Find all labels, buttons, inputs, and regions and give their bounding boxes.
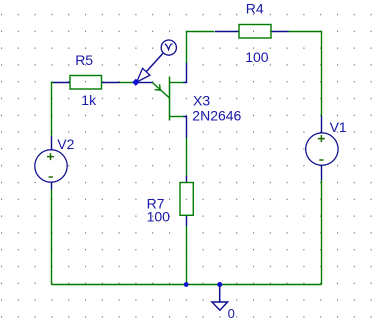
resistor R4: [215, 25, 289, 39]
B1 lead: [170, 116, 185, 118]
wire R4 right to V1 top: [289, 32, 322, 116]
svg-text:2N2646: 2N2646: [192, 108, 241, 124]
emitter arrowhead: [155, 84, 161, 90]
wire bottom rail: [52, 284, 322, 286]
resistor R7: [180, 176, 193, 226]
B2 lead: [170, 82, 185, 84]
wire top-left net: R5 left to V2 top: [52, 83, 55, 137]
resistor R5: [54, 76, 120, 90]
svg-text:V2: V2: [57, 136, 74, 152]
svg-text:100: 100: [245, 49, 269, 65]
wire B1 to R7 top: [186, 138, 188, 177]
ground 0: [212, 285, 228, 310]
svg-text:X3: X3: [193, 93, 210, 109]
wire R5 right to node: [120, 82, 135, 84]
svg-text:1k: 1k: [81, 92, 97, 108]
svg-text:R4: R4: [246, 1, 264, 17]
junction ground stub: [217, 282, 222, 287]
svg-text:V1: V1: [330, 119, 347, 135]
transistor X3 (UJT 2N2646): [137, 63, 187, 138]
emitter diagonal: [152, 83, 169, 99]
svg-text:R5: R5: [75, 52, 93, 68]
base bar: [169, 77, 171, 121]
junction R7/ground rail: [184, 282, 189, 287]
voltage source V1: [306, 116, 338, 180]
wire B2 top: transistor up, across top, down to V1: [187, 32, 215, 64]
voltage source V2: [35, 136, 67, 189]
emitter pin: [137, 82, 153, 84]
voltmeter probe (viewpoint): [137, 40, 177, 82]
node junction at emitter: [133, 79, 139, 85]
wire R7 bottom to ground rail: [186, 226, 188, 285]
wire V2 bottom down: [51, 189, 53, 285]
svg-text:100: 100: [147, 209, 171, 225]
wire V1 bottom down: [321, 180, 323, 285]
svg-text:0: 0: [228, 306, 235, 320]
